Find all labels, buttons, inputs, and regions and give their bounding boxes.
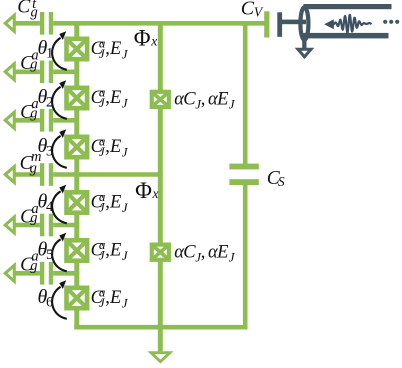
ellipsis dots: [383, 20, 399, 24]
resonator top rail: [304, 4, 392, 9]
wire: right vertical above CS: [243, 21, 248, 165]
svg-text:αCJ,αEJ: αCJ,αEJ: [174, 242, 235, 264]
wire: top rail (Cg^t row, to CV) horizontal: [15, 21, 266, 26]
resonator feed stub: [282, 20, 307, 25]
phase arrow theta3: [52, 129, 67, 168]
phase arrow theta5: [52, 233, 67, 272]
wire: row 6 horizontal: [15, 271, 79, 276]
phase arrow theta2: [52, 80, 67, 119]
capacitor Cg^t plates: [40, 12, 53, 35]
capacitor Cg^a row2 plates: [40, 61, 53, 84]
alpha junction A1: [150, 90, 171, 109]
wire: right vertical below CS: [243, 185, 248, 330]
capacitor Cg^a row6 plates: [40, 262, 53, 285]
phase arrow theta4: [52, 185, 67, 224]
wire: junction chain vertical: [74, 21, 79, 329]
capacitor Cg^a row5 plates: [40, 214, 53, 237]
phase arrow theta1: [52, 31, 67, 70]
Josephson junction J4 (theta4): [64, 190, 89, 215]
alpha junction A2: [150, 243, 171, 262]
Josephson junction J2 (theta2): [64, 86, 89, 111]
resonator bottom rail: [304, 33, 389, 39]
main ground triangle: [147, 351, 173, 363]
Josephson junction J5 (theta5): [64, 238, 89, 263]
capacitor CV green plate: [264, 11, 269, 37]
capacitor Cg^m row4 plates: [40, 163, 53, 186]
incoming photon wiggly arrow: [333, 15, 371, 33]
wire: row 5 horizontal: [15, 223, 79, 228]
capacitor Cg^a row3 plates: [40, 109, 53, 132]
capacitor CS plates: [229, 164, 258, 185]
resonator ground triangle: [295, 48, 315, 59]
svg-text:Ctg: Ctg: [17, 0, 37, 21]
port triangle row 2 (to ground): [3, 60, 16, 83]
Josephson junction J1 (theta1): [64, 37, 89, 62]
resonator ground stub: [302, 40, 306, 48]
resonator end-cap ellipse: [300, 7, 308, 40]
Josephson junction J3 (theta3): [64, 135, 89, 160]
wire: row 4 (Cg^m, to flux branch) horizontal: [15, 172, 163, 177]
wire: row 3 horizontal: [15, 118, 79, 123]
wire: alpha branch vertical: [158, 21, 163, 351]
port triangle row 4 (to ground): [3, 163, 16, 186]
port triangle row 3 (to ground): [3, 109, 16, 132]
port triangle row 1 (to ground): [3, 12, 16, 35]
port triangle row 6 (to ground): [3, 262, 16, 285]
wire: row 2 horizontal: [15, 70, 79, 75]
svg-text:αCJ,αEJ: αCJ,αEJ: [174, 90, 235, 112]
wiggly arrowhead: [324, 19, 334, 29]
capacitor CV dark plate: [277, 12, 282, 37]
phase arrow theta6: [52, 280, 67, 319]
wire: bottom rail: [74, 325, 247, 330]
port triangle row 5 (to ground): [3, 214, 16, 237]
Josephson junction J6 (theta6): [64, 286, 89, 311]
